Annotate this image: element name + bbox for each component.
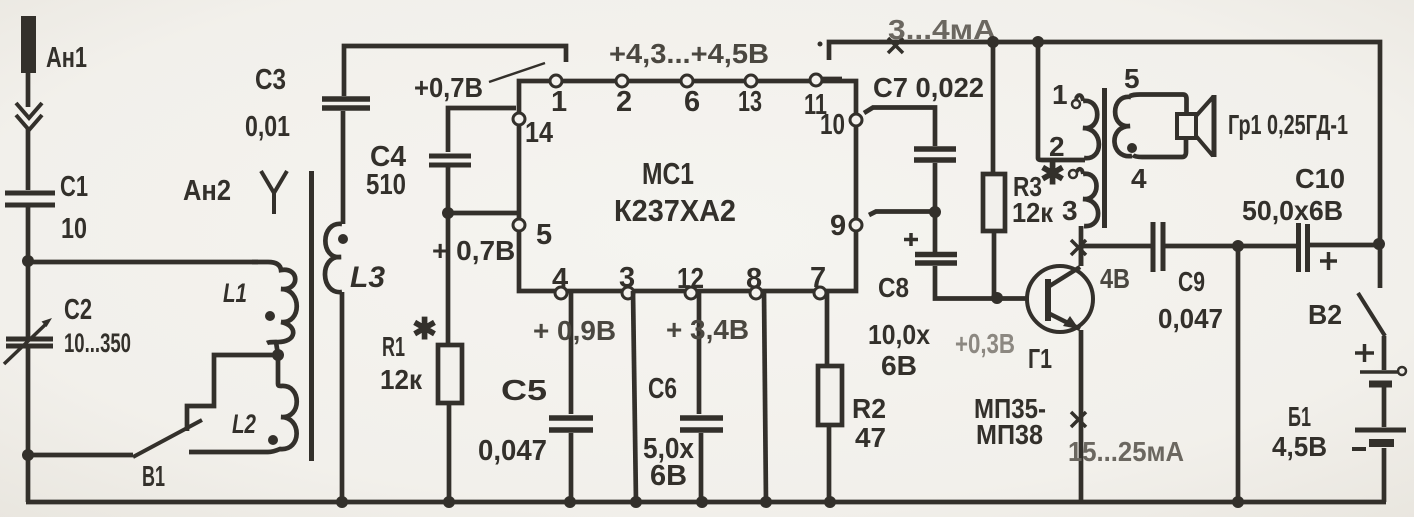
svg-text:4: 4 bbox=[552, 263, 568, 295]
node right rail junction bbox=[1373, 238, 1385, 250]
svg-text:Г1: Г1 bbox=[1028, 343, 1052, 374]
svg-text:✱: ✱ bbox=[1040, 158, 1065, 191]
node C6-rail bbox=[696, 496, 708, 508]
wire B1 to left rail bbox=[28, 453, 133, 458]
svg-text:В1: В1 bbox=[142, 461, 165, 493]
svg-text:МС1: МС1 bbox=[642, 156, 694, 191]
node L3-rail junction bbox=[336, 496, 348, 508]
svg-text:С6: С6 bbox=[648, 373, 677, 405]
pin 9 bbox=[850, 219, 862, 231]
svg-text:Ан1: Ан1 bbox=[46, 42, 87, 74]
svg-text:+4,3...+4,5В: +4,3...+4,5В bbox=[609, 38, 769, 69]
svg-text:С8: С8 bbox=[878, 272, 909, 303]
capacitor C10 bbox=[1299, 223, 1308, 272]
svg-text:10: 10 bbox=[61, 213, 87, 245]
svg-text:L1: L1 bbox=[223, 278, 247, 308]
capacitor C7 bbox=[914, 149, 956, 160]
transistor Q1 G1 bbox=[1027, 266, 1093, 332]
svg-text:3...4мА: 3...4мА bbox=[888, 14, 996, 45]
node left-bottom junction bbox=[22, 449, 34, 461]
wire pin9 to node bbox=[869, 212, 935, 216]
svg-text:С10: С10 bbox=[1295, 163, 1345, 194]
wire pin7 to R2 bbox=[825, 291, 830, 366]
node mid-rail junction bbox=[1232, 496, 1244, 508]
wire C9 to C10 bbox=[1165, 244, 1297, 249]
svg-text:1: 1 bbox=[551, 86, 567, 118]
wire mid junction to rail bbox=[1236, 246, 1241, 502]
node X mark emitter 15...25mA bbox=[1071, 412, 1086, 427]
wire switch to battery bbox=[1382, 336, 1387, 370]
battery B1 plus bbox=[1355, 344, 1374, 362]
wire collector node to C9 bbox=[1081, 244, 1151, 249]
svg-text:С3: С3 bbox=[255, 64, 286, 96]
svg-text:С7 0,022: С7 0,022 bbox=[873, 72, 984, 103]
wire pointer +0,7V bbox=[489, 63, 545, 82]
svg-text:7: 7 bbox=[810, 262, 826, 294]
svg-text:6: 6 bbox=[684, 86, 700, 118]
svg-text:5: 5 bbox=[536, 219, 552, 251]
svg-text:12: 12 bbox=[677, 263, 704, 295]
pin 11 bbox=[810, 74, 822, 86]
wire C2 down to bottom rail bbox=[26, 348, 31, 502]
svg-text:3: 3 bbox=[619, 262, 635, 294]
svg-text:+ 3,4В: + 3,4В bbox=[666, 314, 749, 345]
svg-text:К237ХА2: К237ХА2 bbox=[614, 193, 736, 228]
wire top rail bbox=[829, 42, 1380, 244]
svg-text:R2: R2 bbox=[852, 393, 886, 424]
battery B1 minus bbox=[1352, 447, 1366, 451]
transformer primary winding 3 bbox=[1083, 174, 1098, 226]
svg-text:0,047: 0,047 bbox=[478, 435, 547, 467]
wire L3 to bottom rail bbox=[340, 292, 345, 502]
wire antenna to C1 bbox=[26, 128, 31, 190]
svg-text:+ 0,7В: + 0,7В bbox=[432, 235, 515, 266]
svg-text:+0,7В: +0,7В bbox=[414, 72, 483, 103]
svg-text:R1: R1 bbox=[382, 331, 405, 362]
node pin3-rail bbox=[630, 496, 642, 508]
wire secondary bottom lead bbox=[1133, 138, 1186, 157]
node L2 polarity dot bbox=[268, 435, 278, 445]
switch B1 blade bbox=[133, 420, 202, 457]
svg-text:5: 5 bbox=[1124, 63, 1140, 94]
capacitor C3 bbox=[322, 99, 370, 108]
wire node to pin5 bbox=[448, 211, 518, 216]
capacitor C5 bbox=[549, 418, 593, 430]
wire right rail to switch bbox=[1378, 244, 1383, 288]
svg-text:Гр1 0,25ГД-1: Гр1 0,25ГД-1 bbox=[1228, 109, 1348, 140]
wire winding3 to collector bbox=[1079, 226, 1084, 266]
wire rail to R3 bbox=[991, 42, 996, 174]
ferrite core left bbox=[309, 171, 314, 461]
svg-text:12к: 12к bbox=[1012, 197, 1054, 228]
pin 10 bbox=[850, 114, 862, 126]
wire between cells bbox=[1382, 387, 1387, 427]
svg-text:6В: 6В bbox=[881, 350, 917, 381]
svg-text:15...25мА: 15...25мА bbox=[1068, 436, 1184, 467]
pin 6 bbox=[681, 75, 693, 87]
svg-text:С1: С1 bbox=[60, 171, 88, 203]
pin 13 bbox=[745, 75, 757, 87]
svg-text:6В: 6В bbox=[650, 460, 687, 492]
wire C8 to base node bbox=[935, 266, 1028, 299]
wire C4 to node bbox=[446, 167, 451, 345]
node rail artifact dot bbox=[818, 42, 823, 47]
node L3 polarity dot bbox=[338, 234, 348, 244]
svg-text:14: 14 bbox=[525, 117, 553, 149]
svg-text:2: 2 bbox=[1049, 131, 1065, 162]
svg-text:L2: L2 bbox=[232, 409, 256, 439]
svg-text:4,5В: 4,5В bbox=[1272, 431, 1327, 462]
wire collector up bbox=[1079, 246, 1084, 266]
svg-text:10...350: 10...350 bbox=[64, 328, 131, 358]
node X mark 3...4mA bbox=[888, 38, 903, 53]
capacitor C6 bbox=[680, 418, 723, 430]
pin 14 bbox=[513, 113, 525, 125]
svg-text:0,01: 0,01 bbox=[245, 111, 290, 143]
wire L1 bottom lead bbox=[276, 342, 278, 355]
label C10 plus bbox=[1320, 252, 1337, 270]
wire C5 to rail bbox=[569, 433, 574, 502]
wire C7 to C8 bbox=[933, 163, 938, 252]
svg-text:47: 47 bbox=[855, 422, 886, 453]
node C7-C8 junction bbox=[929, 206, 941, 218]
wire pin10 to C7 bbox=[864, 108, 935, 147]
node R1-rail junction bbox=[443, 496, 455, 508]
svg-text:С5: С5 bbox=[501, 375, 547, 407]
wire pin12 branch bbox=[697, 291, 702, 414]
node left-top junction bbox=[22, 255, 34, 267]
wire rail to transformer center tap bbox=[1038, 42, 1085, 160]
svg-text:3: 3 bbox=[1062, 195, 1078, 226]
switch B2 blade bbox=[1358, 293, 1385, 336]
svg-text:9: 9 bbox=[830, 210, 846, 242]
capacitor C2 variable bbox=[4, 318, 53, 364]
svg-text:+ 0,9В: + 0,9В bbox=[533, 315, 616, 346]
pin 1 bbox=[550, 75, 562, 87]
svg-text:4В: 4В bbox=[1100, 263, 1130, 294]
wire C3 top to pin1 hook bbox=[344, 46, 566, 96]
pin 4 bbox=[555, 287, 567, 299]
node C4-R1-pin5 junction bbox=[442, 207, 454, 219]
svg-text:2: 2 bbox=[616, 86, 632, 118]
wire secondary top lead bbox=[1130, 95, 1187, 115]
resistor R1 bbox=[438, 345, 462, 403]
transformer winding 3 hook bbox=[1077, 169, 1083, 174]
wire C1 to C2 bbox=[26, 207, 31, 337]
svg-text:Б1: Б1 bbox=[1288, 401, 1311, 432]
wire coil tap step to B1 bbox=[187, 355, 278, 431]
svg-text:50,0х6В: 50,0х6В bbox=[1242, 195, 1343, 226]
node L1 polarity dot bbox=[265, 311, 275, 321]
capacitor C9 bbox=[1153, 222, 1163, 272]
resistor R2 bbox=[818, 366, 842, 425]
label C8 plus bbox=[904, 233, 918, 246]
node rail-R3 junction bbox=[987, 36, 999, 48]
wire R2 to rail bbox=[827, 425, 832, 502]
wire pin8 to rail bbox=[764, 291, 766, 502]
svg-text:4: 4 bbox=[1131, 163, 1147, 194]
svg-text:8: 8 bbox=[746, 263, 762, 295]
resistor R3 bbox=[983, 174, 1005, 231]
svg-text:10,0х: 10,0х bbox=[868, 319, 930, 350]
capacitor C1 bbox=[5, 193, 55, 205]
node C5-rail bbox=[564, 496, 576, 508]
wire C6 to rail bbox=[699, 433, 704, 502]
pin 2 bbox=[616, 75, 628, 87]
wire C10 to right rail bbox=[1309, 243, 1380, 248]
node pin8-rail bbox=[760, 496, 772, 508]
svg-text:В2: В2 bbox=[1308, 299, 1342, 330]
svg-text:0,047: 0,047 bbox=[1158, 303, 1223, 334]
wire R1 to bottom rail bbox=[447, 403, 452, 502]
inductor L3 bbox=[325, 224, 342, 292]
node R3-base junction bbox=[991, 292, 1003, 304]
svg-text:С2: С2 bbox=[64, 294, 92, 326]
wire pin4 branch bbox=[569, 291, 574, 414]
node rail-transformer junction bbox=[1032, 36, 1044, 48]
transformer winding 1 hook bbox=[1076, 95, 1083, 101]
node L1-L2 junction bbox=[272, 349, 284, 361]
antenna An1 bbox=[16, 16, 42, 130]
svg-text:С9: С9 bbox=[1178, 266, 1205, 297]
wire battery to bottom rail bbox=[1382, 448, 1387, 502]
transformer secondary winding 4-5 bbox=[1114, 97, 1132, 156]
node C9-C10 mid junction bbox=[1232, 240, 1244, 252]
battery B1 cell2 bbox=[1355, 430, 1406, 443]
svg-text:Ан2: Ан2 bbox=[183, 175, 231, 207]
svg-text:L3: L3 bbox=[350, 261, 385, 294]
wire emitter down to rail bbox=[1079, 330, 1084, 502]
svg-text:12к: 12к bbox=[380, 364, 423, 395]
pin 8 bbox=[750, 287, 762, 299]
capacitor C4 bbox=[429, 156, 471, 165]
node R2-rail bbox=[824, 496, 836, 508]
wire pin11 stub bbox=[822, 77, 842, 82]
inductor L1 bbox=[252, 262, 297, 343]
op-amp U1 IC MC1 K237XA2 body bbox=[519, 81, 856, 291]
node terminal 3 circle bbox=[1069, 170, 1077, 178]
transformer primary winding 1-2 bbox=[1083, 101, 1099, 158]
svg-text:1: 1 bbox=[1052, 79, 1068, 110]
svg-text:510: 510 bbox=[366, 169, 406, 201]
svg-text:+0,3В: +0,3В bbox=[955, 328, 1015, 359]
wire bottom rail bbox=[26, 500, 1386, 505]
pin 5 bbox=[513, 219, 525, 231]
svg-text:✱: ✱ bbox=[412, 313, 437, 346]
transformer core bbox=[1102, 88, 1107, 228]
pin 12 bbox=[685, 287, 697, 299]
wire pin3 to rail bbox=[633, 291, 636, 502]
svg-text:МП38: МП38 bbox=[976, 419, 1043, 450]
capacitor C8 bbox=[915, 255, 957, 264]
antenna An2 symbol bbox=[261, 171, 287, 214]
node secondary polarity dot bbox=[1127, 143, 1137, 153]
inductor L2 bbox=[189, 355, 297, 452]
wire R3 to base node bbox=[992, 231, 997, 298]
node terminal 1 circle bbox=[1072, 100, 1080, 108]
pin 3 bbox=[622, 287, 634, 299]
svg-text:10: 10 bbox=[820, 109, 845, 141]
battery B1 cell1 bbox=[1360, 367, 1406, 384]
wire top of L1 loop bbox=[28, 260, 258, 265]
svg-text:13: 13 bbox=[738, 86, 762, 118]
speaker Gr1 bbox=[1177, 95, 1214, 157]
pin 7 bbox=[814, 287, 826, 299]
wire C3 to L3 bbox=[341, 111, 346, 224]
wire pin14 to C4 bbox=[448, 108, 516, 152]
node X mark collector 4V bbox=[1071, 240, 1086, 255]
